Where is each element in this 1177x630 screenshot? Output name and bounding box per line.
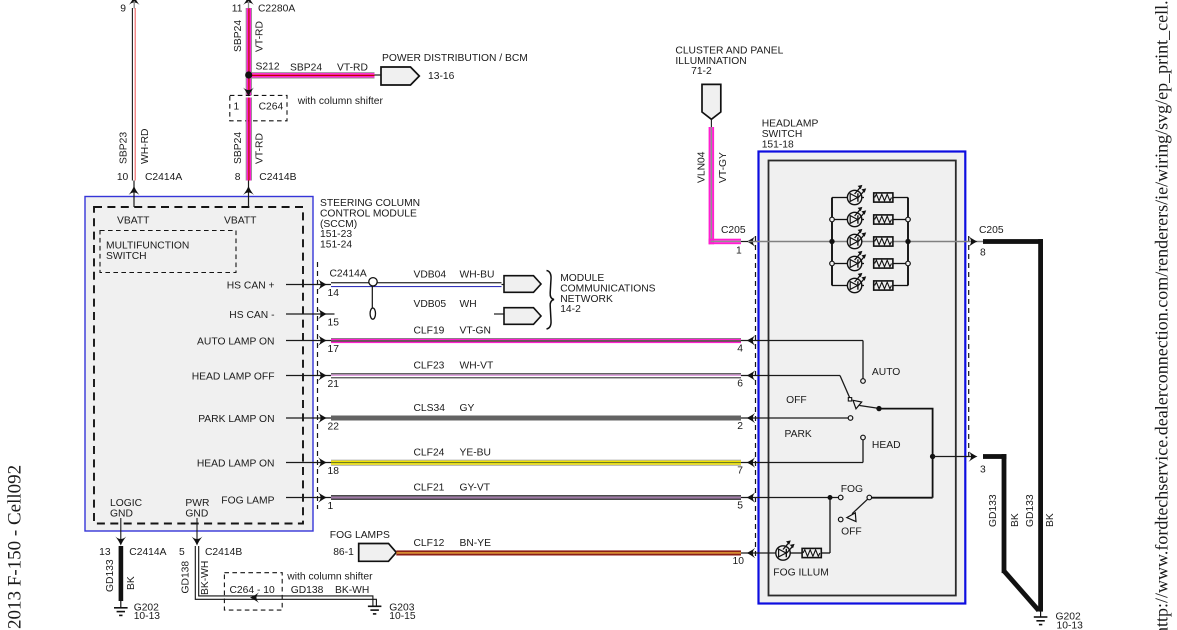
svg-text:GD133: GD133 [988,494,999,527]
svg-text:10: 10 [117,172,129,183]
svg-text:AUTO: AUTO [872,367,900,378]
svg-text:6: 6 [737,379,743,390]
wire CLF12 BN-YE [396,550,741,555]
svg-text:COMMUNICATIONS: COMMUNICATIONS [560,283,655,294]
arrow pin 1 [318,492,327,503]
SCCM module box [85,197,313,532]
fog lamps off-page arrow box [359,544,397,562]
resistor 2 [874,215,893,224]
svg-text:BK: BK [126,576,137,590]
wire CLS34 GY [331,416,741,421]
svg-text:C264 - 10: C264 - 10 [230,585,275,596]
svg-text:S212: S212 [256,62,280,73]
PARK contact [848,416,853,421]
arrow pin 10 [746,548,755,559]
svg-text:SBP24: SBP24 [290,63,322,74]
svg-text:C2414B: C2414B [259,172,296,183]
svg-text:C2280A: C2280A [258,4,295,15]
pin stub PARK LAMP ON [286,417,331,419]
illumination LED 5 [847,273,866,293]
svg-text:VBATT: VBATT [224,216,257,227]
svg-text:10-13: 10-13 [134,611,161,622]
svg-text:VT-GN: VT-GN [460,326,491,337]
rail junction dots [829,239,834,244]
pin 5 lead below SCCM [196,518,198,540]
splice S212 [245,71,252,78]
svg-text:MULTIFUNCTION: MULTIFUNCTION [106,240,189,251]
pin stub HS CAN - [286,313,335,315]
svg-text:NETWORK: NETWORK [560,294,613,305]
AUTO contact [861,379,866,384]
svg-text:CLF24: CLF24 [414,448,445,459]
svg-text:86-1: 86-1 [333,547,354,558]
svg-text:14-2: 14-2 [560,304,581,315]
brace [547,271,555,330]
rail junction circles [830,217,911,266]
illumination LED 1 [847,185,866,205]
junction dot on pin 5 wire [828,495,833,500]
C264-10 dashed connector box [224,573,282,610]
HEAD contact [861,435,866,440]
svg-text:VT-RD: VT-RD [337,63,368,74]
svg-text:C2414B: C2414B [205,547,242,558]
resistor lead right [821,552,830,554]
svg-text:17: 17 [328,344,340,355]
svg-text:14: 14 [328,288,340,299]
svg-text:PARK LAMP ON: PARK LAMP ON [198,414,274,425]
svg-text:10-13: 10-13 [1057,621,1084,630]
pin 4 wire into switch [741,340,863,342]
arm pivot square [848,398,851,401]
arrow up into SCCM VBATT 2 [243,186,254,195]
switch arm from pin 6 [840,376,850,398]
svg-text:with column shifter: with column shifter [297,96,384,107]
lead resistor to LED [790,552,802,554]
svg-text:5: 5 [179,547,185,558]
svg-text:STEERING COLUMN: STEERING COLUMN [320,198,420,209]
svg-text:CLF19: CLF19 [414,326,445,337]
svg-text:OFF: OFF [786,395,807,406]
illumination LED 4 [847,251,866,271]
wire VLN04 VT-GY horizontal [709,239,741,245]
module comms off-page arrow box 1 [504,276,541,293]
FOG switch arm [852,499,868,514]
headlamp switch box [759,152,966,604]
HEAD contact drop line [862,440,864,463]
svg-text:CLF21: CLF21 [414,483,445,494]
twisted pair symbol [369,278,377,320]
SCCM dashed outline [94,207,303,524]
wire SBP24 VT-RD vertical upper [246,8,252,96]
fog illum LED [776,540,795,560]
svg-text:151-23: 151-23 [320,229,352,240]
wire VLN04 VT-GY vertical [709,127,715,244]
svg-text:BK-WH: BK-WH [335,585,369,596]
svg-text:GD133: GD133 [1025,494,1036,527]
svg-text:WH-BU: WH-BU [460,270,495,281]
lead and arrow into switch pin 1 [741,241,754,243]
LED bank rails [832,198,908,286]
connector dashed line at switch left [755,236,757,560]
FOG switch common contact [867,495,872,500]
svg-text:MODULE: MODULE [560,273,604,284]
svg-text:CONTROL MODULE: CONTROL MODULE [320,208,417,219]
svg-text:1: 1 [736,246,742,257]
pin 7 wire into switch [741,462,863,464]
svg-text:PWR: PWR [185,498,209,509]
svg-text:VT-RD: VT-RD [255,133,266,164]
resistor 4 [874,259,893,268]
svg-text:GY: GY [460,403,475,414]
lead to module comms box 1 [502,284,505,286]
wire VDB04 WH-BU [331,282,502,287]
resistor 1 [874,193,893,202]
svg-text:CLF12: CLF12 [414,538,445,549]
svg-text:13-16: 13-16 [428,71,455,82]
ground G202 right [1034,612,1048,625]
svg-text:SWITCH: SWITCH [106,251,147,262]
lead LED to pin 10 [741,552,776,554]
ground G202 left [114,600,128,616]
arrow up top of SBP23 [129,0,140,5]
svg-text:C205: C205 [721,225,746,236]
svg-text:151-24: 151-24 [320,240,352,251]
wire CLF24 YE-BU [331,460,741,466]
svg-text:7: 7 [737,466,743,477]
svg-text:VT-GY: VT-GY [718,152,729,183]
svg-text:GY-VT: GY-VT [460,483,491,494]
svg-text:with column shifter: with column shifter [286,572,373,583]
LED row lines [832,198,908,286]
svg-text:10-15: 10-15 [389,611,416,622]
wire GD138 BK-WH double line [195,546,376,606]
thick BK wire from pin 3 [983,454,1006,459]
svg-text:PARK: PARK [785,429,812,440]
svg-text:C2414A: C2414A [129,547,166,558]
arrow pin 15 [318,309,327,320]
svg-text:71-2: 71-2 [691,66,712,77]
arrow up into SCCM VBATT [129,186,140,195]
arrow pin 17 [318,335,327,346]
wire SBP23 WH-RD vertical [132,8,135,181]
power distribution / BCM off-page arrow box [381,67,419,85]
svg-text:HS CAN +: HS CAN + [227,281,275,292]
FOG arm arrowhead [847,513,856,522]
svg-text:HEAD LAMP OFF: HEAD LAMP OFF [192,372,275,383]
svg-text:15: 15 [328,318,340,329]
arrow left on GD138 wire [250,592,259,603]
svg-text:C264: C264 [259,101,284,112]
connector C2414 dashed line left [317,262,319,509]
svg-text:C205: C205 [979,225,1004,236]
svg-text:GND: GND [185,508,208,519]
svg-text:HEADLAMP: HEADLAMP [762,119,819,130]
svg-text:WH: WH [460,299,477,310]
lead from arrow box [710,119,712,127]
svg-text:SWITCH: SWITCH [762,129,803,140]
svg-text:8: 8 [235,172,241,183]
fog illum resistor [802,548,821,557]
svg-text:1: 1 [234,101,240,112]
svg-text:22: 22 [328,422,340,433]
junction to pin 3 [930,454,935,459]
wire CLF21 GY-VT [331,495,741,500]
C205 pin 8 arrow out [969,236,978,247]
resistor 3 [874,237,893,246]
C205 wire through switch [748,241,983,243]
FOG contact [838,495,843,500]
svg-text:VDB04: VDB04 [414,270,447,281]
pin stub HS CAN + [286,284,331,286]
wire GD133 BK thick [119,546,124,601]
svg-text:8: 8 [980,248,986,259]
arrow pin 18 [318,457,327,468]
svg-text:13: 13 [99,547,111,558]
svg-text:C2414A: C2414A [330,269,367,280]
svg-text:18: 18 [328,466,340,477]
pin stub FOG LAMP [286,497,331,499]
pin 3 wire out [933,456,971,458]
headlamp switch inner box [769,161,956,596]
svg-text:CLUSTER AND PANEL: CLUSTER AND PANEL [675,46,783,57]
svg-text:VLN04: VLN04 [697,151,708,183]
FOG ILLUM branch down [829,498,831,554]
thick BK wire from C205 pin 8 [983,239,1043,244]
FOG common wire right and up [872,497,933,499]
lead into SCCM pin 10 [133,181,135,208]
svg-text:HEAD LAMP ON: HEAD LAMP ON [197,459,275,470]
AUTO contact drop line [862,341,864,379]
svg-text:(SCCM): (SCCM) [320,219,357,230]
svg-text:AUTO LAMP ON: AUTO LAMP ON [197,337,274,348]
pin 13 lead below SCCM [120,518,122,540]
svg-text:VT-RD: VT-RD [255,21,266,52]
arrow pin 22 [318,413,327,424]
svg-text:WH-RD: WH-RD [140,129,151,164]
svg-text:BK: BK [1010,513,1021,527]
svg-text:11: 11 [232,4,243,15]
svg-text:BN-YE: BN-YE [460,538,492,549]
svg-text:WH-VT: WH-VT [460,361,494,372]
wire SBP24 VT-RD horizontal to BCM [249,72,375,78]
common junction dot [876,406,881,411]
common wire right and down [879,409,933,498]
wire CLF23 WH-VT [331,373,741,378]
svg-text:2013 F-150 - Cell092: 2013 F-150 - Cell092 [5,465,26,629]
svg-text:VDB05: VDB05 [414,299,447,310]
svg-text:HEAD: HEAD [872,440,901,451]
svg-text:SBP24: SBP24 [233,20,244,52]
FOG OFF contact [838,517,843,522]
pin 5 wire into switch [741,497,838,499]
arm line to common [860,406,879,409]
wire VDB05 WH short [494,313,504,315]
svg-text:9: 9 [120,4,126,15]
svg-text:1: 1 [328,501,334,512]
svg-text:HS CAN -: HS CAN - [229,310,274,321]
svg-text:10: 10 [733,556,745,567]
svg-text:151-18: 151-18 [762,140,794,151]
svg-text:FOG: FOG [841,484,863,495]
svg-text:BK-WH: BK-WH [200,561,211,595]
arrow pin 14 [318,279,327,290]
svg-text:FOG LAMP: FOG LAMP [221,495,274,506]
svg-text:GD133: GD133 [105,559,116,592]
svg-text:4: 4 [737,344,743,355]
arrow pin 21 [318,370,327,381]
svg-text:GD138: GD138 [181,561,192,594]
svg-text:GD138: GD138 [291,585,324,596]
multifunction switch dashed box [100,231,236,273]
pin 6 wire into switch [741,375,840,377]
svg-text:FOG LAMPS: FOG LAMPS [330,530,390,541]
svg-text:BK: BK [1045,513,1056,527]
svg-text:OFF: OFF [841,526,862,537]
svg-text:POWER DISTRIBUTION / BCM: POWER DISTRIBUTION / BCM [382,53,528,64]
illumination LED 2 [847,207,866,227]
svg-text:YE-BU: YE-BU [460,448,491,459]
arrow down pin 5 [192,537,203,546]
pin stub HEAD LAMP OFF [286,375,331,377]
arrow up top of SBP24 [243,0,254,5]
arrow down pin 13 [115,537,126,546]
svg-text:SBP23: SBP23 [119,132,130,164]
svg-text:http://www.fordtechservice.dea: http://www.fordtechservice.dealerconnect… [1152,0,1172,630]
svg-text:C2414A: C2414A [145,172,182,183]
svg-text:CLS34: CLS34 [414,403,446,414]
svg-text:VBATT: VBATT [117,216,150,227]
resistor 5 [874,281,893,290]
arm arrowhead open triangle [853,400,862,409]
connector dashed line at switch right [968,236,970,457]
svg-text:5: 5 [737,501,743,512]
svg-text:LOGIC: LOGIC [110,498,143,509]
module comms off-page arrow box 2 [504,308,541,325]
svg-text:SBP24: SBP24 [233,132,244,164]
pin stub HEAD LAMP ON [286,462,331,464]
pin 2 wire into switch [741,417,848,419]
wire CLF19 VT-GN [331,338,741,343]
svg-text:CLF23: CLF23 [414,361,445,372]
ground G203 [368,606,382,614]
cluster illumination arrow box down [702,84,721,119]
lead into SCCM pin 8 [248,181,250,208]
svg-text:GND: GND [110,508,133,519]
svg-text:21: 21 [328,379,340,390]
svg-text:2: 2 [737,421,743,432]
lead to power distribution box [375,74,382,76]
svg-text:FOG ILLUM: FOG ILLUM [773,568,829,579]
illumination LED 3 [847,229,866,249]
svg-text:3: 3 [980,465,986,476]
C264 dashed connector box [230,95,287,120]
arrow down into C264 [243,88,254,97]
pin stub AUTO LAMP ON [286,340,331,342]
wire SBP24 VT-RD vertical lower [246,98,252,181]
